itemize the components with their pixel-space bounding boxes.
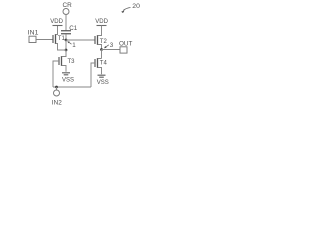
VDD left bar bbox=[53, 25, 63, 27]
ground T3 bbox=[62, 73, 70, 75]
transistor T2 channel bar bbox=[97, 35, 99, 45]
node 1 junction bbox=[65, 39, 68, 42]
node 3 junction bbox=[100, 48, 103, 51]
transistor T3 channel bar bbox=[61, 56, 63, 66]
wire IN2 stem bbox=[56, 87, 58, 90]
svg-text:T4: T4 bbox=[100, 61, 108, 67]
junction T1 source bbox=[65, 49, 68, 52]
svg-text:20: 20 bbox=[132, 3, 140, 10]
junction IN2 bbox=[55, 86, 58, 89]
transistor T1 channel bar bbox=[55, 34, 57, 44]
wire IN2 bus bbox=[53, 86, 91, 88]
svg-text:IN2: IN2 bbox=[52, 100, 62, 107]
svg-text:1: 1 bbox=[72, 42, 76, 49]
wire node 3 to T4 bbox=[101, 50, 103, 59]
capacitor C1 bbox=[61, 31, 71, 34]
transistor T3 leads bbox=[62, 50, 67, 72]
wire T3 gate to IN2 bus bbox=[53, 61, 59, 87]
svg-text:3: 3 bbox=[110, 42, 114, 49]
VDD right bar bbox=[97, 25, 107, 27]
node 3 leader bbox=[105, 45, 109, 48]
svg-text:IN1: IN1 bbox=[28, 30, 39, 37]
terminal OUT bbox=[120, 47, 127, 53]
wire T4 gate to IN2 bus bbox=[91, 63, 95, 87]
node 1 leader bbox=[69, 42, 72, 44]
svg-text:VSS: VSS bbox=[97, 80, 109, 86]
transistor T4 leads bbox=[98, 59, 102, 75]
svg-text:VSS: VSS bbox=[62, 78, 74, 84]
svg-text:T2: T2 bbox=[100, 39, 108, 45]
transistor T1 leads bbox=[56, 26, 67, 51]
svg-text:VDD: VDD bbox=[95, 19, 108, 25]
svg-text:T3: T3 bbox=[68, 59, 76, 65]
transistor T4 gate bar bbox=[94, 59, 96, 67]
svg-text:VDD: VDD bbox=[50, 19, 63, 25]
wire CR to C1 bbox=[65, 15, 67, 31]
svg-text:C1: C1 bbox=[69, 25, 77, 32]
transistor T4 channel bar bbox=[97, 58, 99, 68]
ground T4 bbox=[98, 75, 106, 77]
wire C1 to node 1 bbox=[65, 34, 67, 40]
wire IN1 to T1 gate bbox=[36, 39, 53, 41]
figure ref 20 leader bbox=[123, 8, 131, 11]
svg-text:T1: T1 bbox=[58, 36, 66, 42]
wire node 1 down bbox=[65, 40, 67, 57]
terminal IN2 bbox=[54, 90, 60, 96]
terminal CR bbox=[63, 9, 69, 15]
wire node 3 to OUT bbox=[102, 49, 121, 51]
transistor T2 leads bbox=[98, 26, 102, 50]
terminal IN1 bbox=[29, 36, 36, 42]
transistor T3 gate bar bbox=[58, 57, 60, 65]
transistor T1 gate bar bbox=[52, 35, 54, 43]
transistor T2 gate bar bbox=[94, 36, 96, 44]
wire node 1 to T2 gate bbox=[66, 39, 95, 41]
svg-text:CR: CR bbox=[63, 2, 73, 9]
